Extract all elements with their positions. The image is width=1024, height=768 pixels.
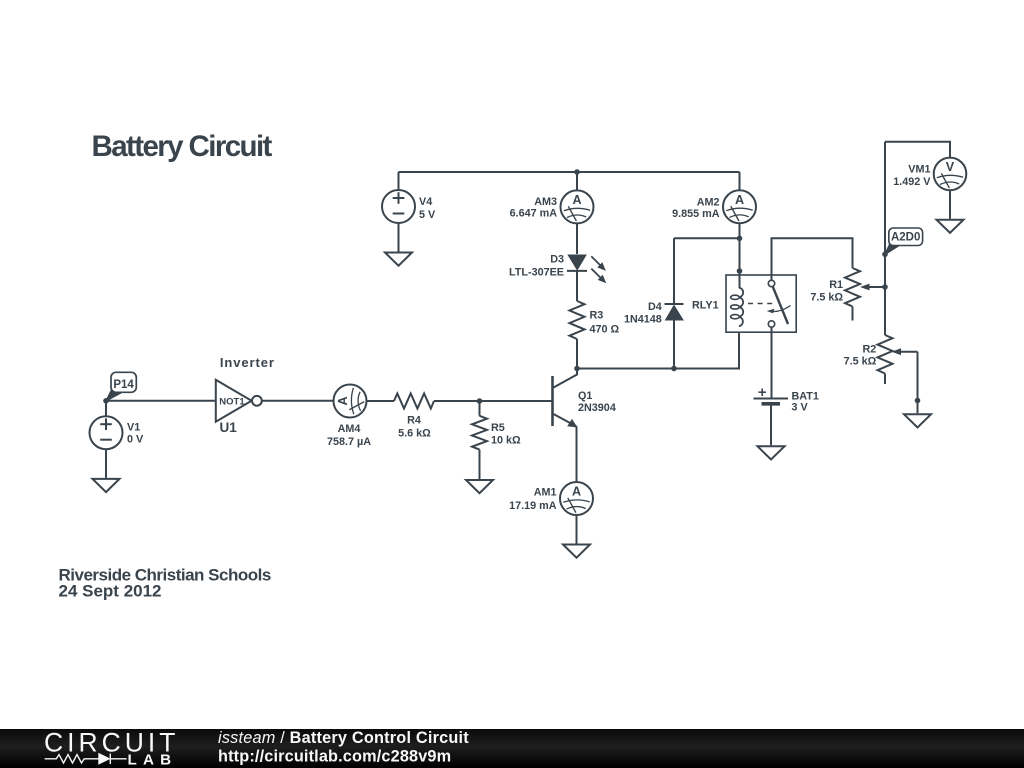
ground below BAT1 [758,446,785,459]
wire battery to ground [770,404,772,446]
svg-text:D3: D3 [550,253,564,265]
ground below AM1 [563,545,590,558]
svg-text:RLY1: RLY1 [692,299,719,311]
svg-text:LTL-307EE: LTL-307EE [509,266,564,278]
ground below R5 [466,480,493,493]
svg-text:issteam / Battery Control Circ: issteam / Battery Control Circuit [218,729,469,747]
potentiometer R1 [810,268,885,321]
ammeter AM3 [561,190,594,223]
svg-text:AM2: AM2 [697,196,720,208]
wire node to R5 [479,401,481,416]
wire P14 to inverter [106,400,216,402]
voltage source V1 [90,416,123,449]
node top rail junction [574,169,580,175]
wire AM4 to R4 [367,400,395,402]
wire VM1 to ground [949,190,951,219]
node R2 wiper ground [915,398,921,404]
svg-text:5 V: 5 V [419,209,436,221]
svg-text:Q1: Q1 [578,390,592,402]
resistor R4 [394,394,434,440]
wire top rail [399,171,740,173]
wire inverter to AM4 [262,400,334,402]
wire V4 to rail [398,172,400,190]
wire AM2 to relay coil [739,223,741,288]
svg-text:7.5 kΩ: 7.5 kΩ [844,356,877,368]
node R3/Q1 collector [574,366,580,372]
wire D4 branch vertical [673,238,675,304]
node relay coil top [737,268,743,274]
logo resistor-diode glyph [45,754,127,764]
ammeter AM2 [723,190,756,223]
svg-text:R2: R2 [862,343,876,355]
svg-text:R5: R5 [491,422,505,434]
svg-text:Inverter: Inverter [220,355,275,370]
wire R5 to ground [479,450,481,479]
op-amp U1 NOT gate [216,380,262,435]
wire VM1 net top [885,142,950,158]
potentiometer R2 [844,335,918,384]
ground below R2 wiper [904,414,931,427]
voltage source V4 [382,190,415,223]
wire D4 branch horizontal [674,237,740,239]
wire V4 to ground [398,223,400,252]
voltmeter VM1 [934,158,967,191]
ground below VM1 [937,220,964,233]
node R4/R5/base [477,398,483,404]
relay RLY1 [692,275,796,332]
svg-text:3 V: 3 V [792,401,809,413]
transistor Q1 [553,369,616,428]
svg-text:758.7 µA: 758.7 µA [327,436,371,448]
wire R4 to node [434,400,480,402]
svg-text:Battery Circuit: Battery Circuit [92,130,273,163]
svg-text:VM1: VM1 [908,163,930,175]
svg-text:1N4148: 1N4148 [624,313,662,325]
svg-text:AM1: AM1 [534,487,557,499]
svg-text:17.19 mA: 17.19 mA [509,500,557,512]
svg-text:9.855 mA: 9.855 mA [672,208,720,220]
battery BAT1 [754,389,819,414]
svg-text:http://circuitlab.com/c288v9m: http://circuitlab.com/c288v9m [218,747,451,765]
svg-text:R1: R1 [829,279,843,291]
wire AM1 to ground [576,515,578,544]
resistor R3 [570,301,620,339]
wire R3 to collector node [576,339,578,369]
svg-text:LAB: LAB [128,752,178,768]
svg-text:R4: R4 [407,414,421,426]
node R1 wiper [882,284,888,290]
svg-text:U1: U1 [220,420,238,435]
flag label P14 [107,372,137,400]
svg-text:NOT1: NOT1 [219,396,245,407]
wire AM2 branch top [739,172,741,190]
wire node to Q1 base [480,400,554,402]
ammeter AM1 [560,482,593,515]
svg-text:7.5 kΩ: 7.5 kΩ [810,292,843,304]
LED D3 [509,253,606,283]
node A2D0 attach [882,252,888,258]
svg-text:5.6 kΩ: 5.6 kΩ [398,428,431,440]
svg-text:10 kΩ: 10 kΩ [491,435,521,447]
wire Q1 emitter to AM1 [576,427,578,483]
wire AM3 to D3 [576,223,578,254]
svg-text:470 Ω: 470 Ω [590,323,620,335]
footer bar [0,729,1024,768]
svg-text:1.492 V: 1.492 V [893,176,931,188]
wire D3 to R3 [576,270,578,301]
svg-text:AM4: AM4 [338,423,361,435]
ground below V1 [93,479,120,492]
diode D4 [624,301,684,326]
wire V1 stem [105,401,107,416]
flag label A2D0 [885,228,922,254]
wire D4 to bottom rail [673,320,675,369]
wire relay switch top [772,238,853,280]
wire rail to AM3 [576,172,578,190]
svg-text:A2D0: A2D0 [891,232,920,244]
node AM2/D4 junction [737,236,743,242]
svg-text:V4: V4 [419,196,432,208]
resistor R5 [472,416,521,450]
ammeter AM4 [334,385,367,418]
svg-text:6.647 mA: 6.647 mA [510,207,558,219]
wire relay switch bottom to battery [771,327,773,398]
node D4 bottom [671,366,677,372]
svg-text:V1: V1 [127,421,140,433]
wire collector rail to relay [577,332,739,369]
svg-text:2N3904: 2N3904 [578,402,616,414]
svg-text:R3: R3 [590,310,604,322]
svg-text:D4: D4 [648,301,662,313]
wire R2 wiper down [917,352,919,414]
node P14 [103,398,109,404]
wire V1 to ground [105,449,107,478]
svg-text:P14: P14 [113,379,134,391]
svg-text:24 Sept 2012: 24 Sept 2012 [59,582,162,601]
ground below V4 [385,253,412,266]
svg-text:0 V: 0 V [127,434,144,446]
wire VM1 net vertical [884,142,886,335]
